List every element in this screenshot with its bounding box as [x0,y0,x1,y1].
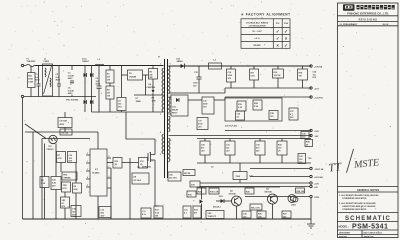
wire secondary top rail [169,65,312,67]
svg-text:SB560: SB560 [177,61,184,63]
svg-text:222 1KV: 222 1KV [169,178,177,180]
svg-text:P0A: P0A [284,22,288,25]
wire left drop [32,132,34,219]
svg-text:VOLTAGE ADJ. RANGE: VOLTAGE ADJ. RANGE [246,21,269,24]
svg-text:400V: 400V [96,83,101,86]
svg-text:PHIHONG ENTERPRISE CO., LTD.: PHIHONG ENTERPRISE CO., LTD. [347,11,389,15]
svg-text:DAT CHECK N.A.K.: DAT CHECK N.A.K. [364,232,383,235]
svg-text:9: 9 [170,64,171,66]
svg-text:2SC945: 2SC945 [265,190,273,193]
resistor R8 [73,183,82,193]
svg-text:+5V: +5V [314,187,318,189]
resistor R18 [298,69,308,80]
resistor R20 [253,100,262,110]
svg-text:5.1K: 5.1K [238,107,243,109]
wire secondary mid rail [169,92,226,94]
svg-text:RECT: RECT [172,112,178,114]
svg-text:R30 5.1K: R30 5.1K [210,191,219,193]
optocoupler PC1 [49,135,57,143]
svg-text:GENERAL NOTES: GENERAL NOTES [357,188,380,192]
resistor R19 [237,101,246,111]
dual diode D11 [171,95,188,116]
terminal +13V/1.2A [310,167,312,169]
svg-text:102 1W: 102 1W [274,75,281,77]
svg-text:10: 10 [170,140,172,142]
thermistor RT2 [62,172,77,180]
svg-text:5.1K: 5.1K [41,183,46,185]
svg-text:2: 2 [87,153,88,155]
regulator block frame [225,98,282,121]
capacitor C21 [183,206,191,218]
capacitor C8 [117,98,126,111]
wires control verticals [44,144,46,177]
wire top primary rail [35,65,164,67]
svg-text:+6.2V/1A: +6.2V/1A [314,96,323,99]
handwritten TT/MSTE [327,146,380,174]
zener D8 [132,173,149,184]
svg-text:0.0047: 0.0047 [68,74,75,77]
core SFC28 [183,170,195,176]
svg-text:400V: 400V [56,79,61,82]
capacitor C30 [200,141,210,155]
terminal -4.1V [310,87,312,89]
svg-text:5V ~ 5.5V: 5V ~ 5.5V [252,31,262,33]
svg-text:3: 3 [87,169,88,171]
factory alignment table frame [241,19,290,49]
variable resistor VR1 [61,197,70,208]
svg-text:✳ FACTORY ALIGNMENT: ✳ FACTORY ALIGNMENT [241,12,291,16]
wire COM out [245,196,310,198]
svg-text:1: 1 [160,64,161,66]
svg-text:D12 TLP-431: D12 TLP-431 [225,125,238,128]
terminal L [21,64,23,66]
schematic title [338,212,399,214]
capacitor C12 [99,207,111,218]
svg-text:8.2K: 8.2K [74,189,79,191]
svg-text:CAPACITORS ARE IN UF UNLESS: CAPACITORS ARE IN UF UNLESS [342,205,376,208]
transformer T1 core [164,59,166,178]
wire q3 emitter drop [236,206,238,219]
svg-text:APPROVE: APPROVE [364,235,375,238]
svg-text:-16V: -16V [314,136,319,138]
diode D10 [181,64,185,68]
capacitor C1 [38,66,40,85]
svg-text:C5 0047: C5 0047 [60,120,68,123]
svg-text:10K: 10K [258,216,262,218]
svg-text:1M: 1M [150,75,153,77]
svg-text:-4.1V: -4.1V [314,87,320,90]
capacitor C26b [242,211,251,218]
svg-text:+6V/3.4A: +6V/3.4A [314,176,323,179]
resistor R36 [296,188,305,193]
svg-text:4.7K: 4.7K [58,157,63,160]
resistor R1 [106,70,114,83]
capacitor C14 [227,69,236,82]
svg-text:0.0047: 0.0047 [68,89,75,92]
capacitor C19 [71,206,81,217]
svg-text:×: × [276,43,279,48]
svg-text:1W: 1W [107,80,110,82]
shunt VR2 TL431 [206,211,224,219]
resistor R10 [113,158,122,169]
resistor R6 [40,177,49,188]
svg-text:P6KE100: P6KE100 [147,87,156,89]
svg-text:UC3842: UC3842 [92,172,100,175]
revisions header [338,15,399,17]
svg-text:2SC945: 2SC945 [229,192,237,195]
capacitor C16 [202,97,214,114]
resistor R7 [57,152,66,163]
diode D15 [190,181,200,187]
capacitor C27 [289,108,298,120]
svg-text:TL431CP: TL431CP [208,215,217,218]
capacitor C3 [71,66,73,71]
svg-text:CM05: CM05 [44,61,50,63]
resistor R26 [257,211,266,218]
svg-text:4.7K: 4.7K [63,187,68,190]
resistor R3 [149,69,158,80]
svg-text:LED1: LED1 [291,205,297,207]
svg-text:5: 5 [160,154,161,156]
svg-text:R36 100: R36 100 [297,191,305,193]
resistor R14 [193,206,201,218]
wire -16 rail [169,135,312,137]
diode D20 [200,200,204,204]
resistor R15 [187,191,196,197]
svg-text:2W: 2W [155,215,158,217]
title block frame [338,3,399,238]
svg-text:1N4B: 1N4B [136,100,142,103]
wire +16 out [200,182,310,184]
svg-text:✓: ✓ [276,29,280,34]
svg-text:400V: 400V [68,77,73,80]
svg-text:6: 6 [109,176,110,178]
resistor R35 [305,140,313,147]
resistor R50 [28,73,36,88]
T1 primary winding [162,68,164,112]
svg-text:MODEL:: MODEL: [339,225,349,229]
mosfet Q1 [148,152,155,162]
svg-text:+16V: +16V [314,131,320,133]
resistor R28 [250,204,262,210]
wire d5 to r3 [143,74,149,76]
svg-text:PSM-5341: PSM-5341 [352,224,388,231]
svg-text:HZ-1A-2: HZ-1A-2 [134,179,143,182]
svg-text:PHIHONG: PHIHONG [344,9,351,11]
IC1 pin numbers [87,153,110,187]
capacitor C28 [269,111,278,120]
T1 secondary windings [169,66,171,94]
capacitor C2 [58,66,60,85]
wire IC vcc [97,132,99,149]
svg-text:MTP4N50: MTP4N50 [142,166,152,169]
svg-text:1N4007: 1N4007 [82,60,90,63]
svg-text:REVISIONS: REVISIONS [359,17,378,21]
svg-text:5.1K: 5.1K [251,76,256,78]
wire +16 rail [225,130,311,132]
IC1 UC3842 [90,149,107,196]
bridge rectifier D3 D4 [84,100,87,104]
svg-text:R5 22K: R5 22K [62,132,69,134]
svg-text:1W: 1W [107,96,110,98]
resistor R22 [277,141,287,155]
company chinese name [357,5,395,9]
regulator 7905 [233,172,247,180]
svg-text:-13V/1.2A: -13V/1.2A [314,168,324,171]
svg-text:2W: 2W [150,77,153,79]
svg-text:×: × [285,36,288,41]
resistor TDR [62,182,71,192]
resistor R17 [250,69,259,80]
svg-text:DRAWN: DRAWN [339,235,347,238]
svg-text:± 5 %: ± 5 % [254,38,259,40]
capacitor C10 [68,152,77,163]
resistor R24 [197,188,206,194]
fuse F1 [24,64,35,67]
svg-text:10M: 10M [152,101,156,103]
svg-text:SCHEMATIC: SCHEMATIC [345,216,391,222]
bulk capacitor C6 [98,66,100,87]
svg-text:1: 1 [87,161,88,163]
wire feedback diagonal [25,124,46,139]
wire -4 rail [225,87,311,89]
terminal +6.2V/1A [310,96,312,98]
capacitor C11 [141,208,151,218]
svg-text:T3A/250V: T3A/250V [27,60,37,63]
resistor R16 [273,69,284,78]
svg-text:400V: 400V [68,92,73,95]
svg-text:1/2W: 1/2W [28,82,33,84]
snubber C20 [168,172,181,181]
wire +6 rail [225,96,311,98]
svg-text:SFC28: SFC28 [184,173,191,175]
resistor R25 [245,188,254,194]
choke L1 [43,64,53,96]
svg-text:400V: 400V [60,123,65,126]
terminal +6V/3.4A [310,175,312,177]
svg-text:7: 7 [109,166,110,168]
svg-text:SRM4B: SRM4B [64,177,72,180]
svg-text:MZ-6A-1: MZ-6A-1 [213,206,222,209]
capacitor C31 [225,141,235,155]
ground symbol [310,198,312,224]
svg-text:5: 5 [87,185,88,187]
resistor R5 [60,129,72,135]
capacitor C29 [298,154,306,164]
svg-text:✓: ✓ [276,36,280,41]
capacitor C22 [51,177,61,190]
svg-text:✓: ✓ [284,43,288,48]
LED1 [293,197,298,202]
transistor Q3 [232,196,242,206]
wire control box rail [42,138,90,140]
svg-text:SBL/B: SBL/B [172,110,179,112]
wire IC ground [97,196,99,219]
wire regulator section rail [197,186,280,188]
svg-text:SEL 4.7K: SEL 4.7K [251,206,260,209]
terminal +13V/1A [310,65,312,67]
svg-text:OTHERWISE INDICATED.: OTHERWISE INDICATED. [342,197,367,200]
svg-text:01. PRELIMINARY: 01. PRELIMINARY [340,23,358,26]
wire vcc rail [25,131,98,133]
svg-text:+13V/1A: +13V/1A [314,65,323,68]
capacitor C25 [301,132,309,139]
svg-text:1. ALL RESISTORS ARE 1/4(W) UN: 1. ALL RESISTORS ARE 1/4(W) UNLESS [339,194,379,197]
snubber C5 [58,118,72,128]
wire lower mid rail [197,162,311,164]
svg-text:OTHERWISE INDICATED.: OTHERWISE INDICATED. [342,208,367,211]
svg-text:1M: 1M [107,93,110,95]
svg-text:8: 8 [109,156,110,158]
terminal -16V [310,134,312,136]
svg-text:3: 3 [160,114,161,116]
general notes header [338,186,399,188]
svg-text:1W: 1W [299,76,302,78]
resistor R30 [209,188,219,194]
transistor Q5 [288,195,296,203]
resistor R2 [106,86,114,99]
zener D21 [221,199,225,203]
transformer pin numbers [160,64,171,157]
svg-text:1M: 1M [107,77,110,79]
transistor Q4 [268,194,278,204]
phihong logo [343,4,355,10]
resistor R27 [282,211,291,218]
svg-text:250V: 250V [35,80,40,82]
capacitor C17 [197,118,208,130]
terminal N [21,95,23,97]
wire HV bottom rail [92,111,164,113]
IC1 pin stubs [86,155,111,188]
capacitor C32 [255,141,265,155]
svg-text:1KV: 1KV [101,215,106,217]
svg-text:5.1K: 5.1K [254,106,259,108]
svg-text:2. ALL RESISTORS ARE IN OHM AN: 2. ALL RESISTORS ARE IN OHM AND [339,202,376,205]
svg-text:+16V: +16V [314,183,320,185]
svg-text:✓: ✓ [284,29,288,34]
T1 aux winding [162,134,164,154]
resistor R13 [154,206,163,218]
svg-text:VR.REF: VR.REF [253,45,261,47]
svg-text:6: 6 [170,119,171,121]
bridge rectifier D1 D2 [84,66,86,113]
svg-text:1KV: 1KV [118,107,123,109]
svg-text:NTC SCK054: NTC SCK054 [66,99,79,102]
wire +5 out [200,186,310,188]
terminal +16V [310,129,312,131]
designer row [361,230,363,238]
svg-text:+5V REGULATION: +5V REGULATION [248,24,266,27]
svg-text:COM: COM [314,197,319,199]
wire sense drop [129,158,131,219]
svg-text:PS2501: PS2501 [47,149,55,151]
wire bottom bus [23,218,312,220]
capacitor C26 [236,111,245,120]
svg-text:TDR: TDR [63,185,68,187]
capacitor C15 [198,66,200,77]
wire lower rail top [197,138,311,140]
wire bottom AC rail [24,96,96,98]
diode D5 [128,70,143,80]
earth wire [22,98,24,219]
svg-text:1N4148: 1N4148 [129,76,137,79]
svg-text:150K: 150K [28,79,33,81]
